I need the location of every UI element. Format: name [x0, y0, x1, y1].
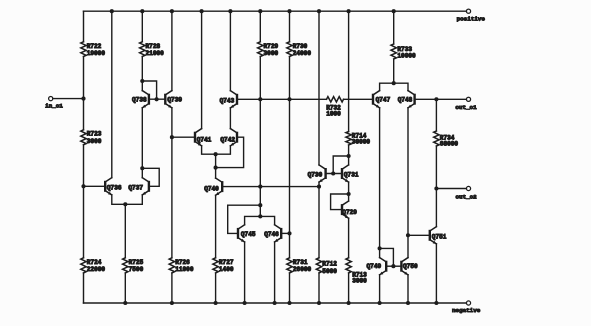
node Q745/Q746 collector tie: [258, 214, 262, 218]
resistor R726 11000: [171, 137, 173, 258]
svg-text:R712: R712: [322, 260, 337, 267]
svg-text:3000: 3000: [264, 50, 279, 57]
terminal positive: [466, 9, 470, 13]
resistor R733 10000: [393, 11, 395, 44]
resistor R729 3000: [259, 11, 261, 42]
wire Q736 collector to positive rail: [111, 11, 113, 178]
wire R733 down to collector tie: [393, 59, 395, 83]
node Q731 collector tie: [347, 154, 351, 158]
wire Q731 emitter to Q729 node: [348, 182, 350, 194]
wire in_c1 to left rail: [53, 98, 84, 100]
transistor Q749: [379, 248, 381, 257]
wire Q729 emitter to R713: [348, 218, 350, 258]
wire Q731 base-collector tie loop: [333, 156, 348, 174]
wire Q747/Q748 collector tie: [380, 83, 408, 90]
wire Q741 base: [172, 136, 195, 138]
transistor Q739: [164, 95, 166, 104]
wire Q731 collector: [348, 156, 350, 165]
wire Q737 emitter: [125, 195, 142, 204]
wire Q749/Q750 base tie: [387, 265, 401, 267]
wire Q737 base-collector tie loop: [142, 168, 159, 186]
wire out_c2: [436, 188, 466, 190]
svg-text:Q749: Q749: [367, 263, 382, 270]
svg-text:11000: 11000: [175, 266, 194, 273]
svg-text:R723: R723: [87, 131, 102, 138]
terminal out_c1: [466, 97, 470, 101]
transistor Q738: [141, 81, 143, 91]
svg-text:Q729: Q729: [342, 209, 357, 216]
resistor R714 30000: [348, 11, 350, 131]
wire Q741 emitter: [202, 146, 216, 154]
wire R730 down to R731: [289, 57, 291, 258]
wire R732 to Q747 base: [344, 98, 374, 100]
svg-text:30000: 30000: [352, 139, 371, 146]
resistor R724 22000: [81, 258, 86, 273]
svg-text:Q739: Q739: [167, 97, 182, 104]
wire Q729 base loop: [331, 194, 349, 210]
resistor R725 7500: [124, 204, 126, 257]
svg-text:Q742: Q742: [220, 136, 235, 143]
resistor R722 19000: [81, 42, 86, 57]
resistor R734 68000: [435, 99, 437, 131]
transistor Q748: [413, 95, 415, 104]
transistor Q740: [221, 182, 223, 191]
svg-text:Q740: Q740: [204, 186, 219, 193]
wire R729 down to mirror node: [259, 57, 261, 217]
resistor R730 24000: [289, 11, 291, 42]
wire Q750 emitter to negative rail: [407, 275, 409, 303]
wire Q739 emitter to Q741 base node: [171, 108, 173, 137]
wire Q751 collector to out_c2 node: [435, 189, 437, 227]
wire top positive rail: [84, 10, 467, 12]
wire Q740 base to Q730 emitter node: [223, 186, 319, 188]
wire Q739 collector to positive rail: [171, 11, 173, 90]
svg-text:R725: R725: [129, 259, 144, 266]
transistor Q729: [341, 205, 343, 214]
svg-text:R727: R727: [219, 259, 234, 266]
wire Q736 base to left rail: [84, 185, 106, 187]
svg-text:5000: 5000: [322, 268, 337, 275]
wire Q741 collector to positive rail: [201, 11, 203, 128]
resistor R731 26000: [287, 258, 292, 273]
node Q740 base / R729 junction: [258, 185, 262, 189]
wire Q749 emitter to negative rail: [379, 275, 381, 303]
wire Q743 emitter to Q742 collector: [229, 108, 231, 129]
wire Q745 collector riser: [245, 216, 261, 224]
wire R728 to Q738 collector node: [141, 57, 143, 82]
svg-text:out_c2: out_c2: [456, 193, 478, 200]
transistor Q745: [237, 229, 239, 238]
svg-text:Q745: Q745: [241, 231, 256, 238]
wire Q730/Q731 base tie: [327, 173, 342, 175]
wire bottom negative rail: [84, 302, 467, 304]
wire Q747 emitter to Q749 collector: [379, 108, 381, 249]
wire left rail vertical (R722/R723/R724 branch): [83, 11, 85, 42]
transistor Q743: [236, 95, 238, 104]
transistor Q747: [372, 95, 374, 104]
wire Q751 emitter to negative rail: [435, 244, 437, 303]
wire Q748 base to out_c1: [415, 98, 467, 100]
svg-text:26000: 26000: [293, 266, 312, 273]
wire Q751 base: [408, 234, 430, 236]
svg-text:24000: 24000: [293, 50, 312, 57]
wire Q745 emitter to negative rail: [244, 242, 246, 303]
wire Q746 emitter to negative rail: [274, 242, 276, 303]
transistor Q741: [194, 133, 196, 142]
svg-text:negative: negative: [452, 307, 481, 314]
svg-text:in_c1: in_c1: [45, 103, 63, 110]
svg-text:Q736: Q736: [107, 185, 122, 192]
svg-text:Q731: Q731: [344, 171, 359, 178]
wire Q742 emitter: [216, 146, 231, 154]
wire Q738 base-collector tie loop: [142, 81, 156, 99]
transistor Q742: [236, 133, 238, 142]
svg-text:Q747: Q747: [376, 96, 391, 103]
wire Q729 collector: [348, 194, 350, 201]
resistor R723 3000: [81, 130, 86, 145]
resistor R712 5000: [316, 258, 321, 273]
svg-text:Q746: Q746: [264, 231, 279, 238]
svg-text:22000: 22000: [87, 266, 106, 273]
svg-text:1400: 1400: [219, 266, 234, 273]
terminal negative: [466, 301, 470, 305]
svg-text:R731: R731: [293, 259, 308, 266]
resistor R732 1000 (horizontal): [327, 97, 344, 102]
terminal in_c1: [49, 97, 53, 101]
svg-text:3000: 3000: [87, 138, 102, 145]
wire Q746 base to R730/R731 column: [282, 232, 289, 234]
svg-text:3000: 3000: [352, 278, 367, 285]
transistor Q751: [429, 231, 431, 240]
wire Q743 collector to positive rail: [229, 11, 231, 91]
svg-text:Q750: Q750: [403, 263, 418, 270]
transistor Q737: [141, 168, 143, 177]
svg-text:R724: R724: [87, 259, 102, 266]
svg-text:positive: positive: [457, 16, 486, 23]
wire Q730 emitter to R712: [318, 182, 320, 258]
wire Q749 base-collector tie loop: [380, 248, 394, 266]
svg-text:out_c1: out_c1: [455, 104, 477, 111]
svg-text:10000: 10000: [397, 53, 416, 60]
svg-text:Q743: Q743: [220, 97, 235, 104]
wire Q743 base line: [237, 98, 327, 100]
wire Q745 base loop: [228, 205, 261, 233]
svg-text:Q751: Q751: [432, 234, 447, 241]
svg-text:7500: 7500: [129, 266, 144, 273]
resistor R713 3000: [346, 258, 351, 273]
wire Q748 emitter to Q750 collector: [407, 108, 409, 258]
svg-text:19000: 19000: [87, 50, 106, 57]
wire Q746 collector riser: [260, 216, 274, 224]
terminal out_c2: [466, 186, 470, 190]
transistor Q730: [324, 169, 326, 178]
transistor Q750: [400, 262, 402, 271]
svg-text:21000: 21000: [146, 50, 165, 57]
wire Q736 emitter: [112, 195, 126, 204]
transistor Q746: [280, 229, 282, 238]
transistor Q731: [341, 169, 343, 178]
node out_c2 junction: [434, 186, 438, 190]
node Q741/Q742 emitter junction: [214, 152, 218, 156]
svg-text:Q730: Q730: [308, 171, 323, 178]
svg-text:1000: 1000: [326, 110, 341, 117]
node Q736/Q737 emitter junction: [123, 202, 127, 206]
svg-text:68000: 68000: [440, 141, 459, 148]
svg-text:Q741: Q741: [197, 136, 212, 143]
wire Q740 emitter / resistor R727 1400: [215, 195, 217, 258]
svg-text:Q737: Q737: [128, 185, 143, 192]
resistor R728 21000: [141, 11, 143, 42]
wire Q730 collector to positive rail: [318, 11, 320, 165]
wire emitter node down to Q740 collector: [215, 154, 217, 178]
svg-text:Q738: Q738: [132, 97, 147, 104]
transistor Q736: [104, 182, 106, 191]
wire Q742 base loop to emitter node: [216, 137, 244, 167]
wire Q738 emitter to Q737 collector: [141, 108, 143, 169]
svg-text:R726: R726: [175, 259, 190, 266]
svg-text:Q748: Q748: [398, 96, 413, 103]
